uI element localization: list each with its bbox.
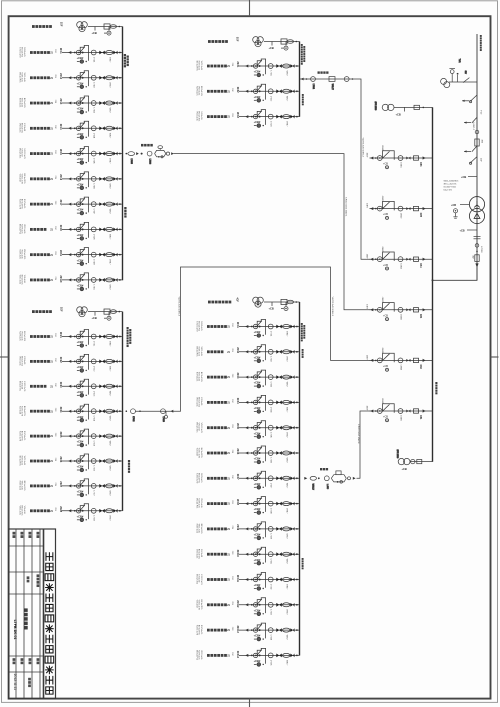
svg-text:WH17: WH17 xyxy=(108,234,110,239)
svg-text:L7313: L7313 xyxy=(162,417,164,422)
generator 4GF machine hall xyxy=(253,297,300,311)
svg-text:+CB: +CB xyxy=(269,46,274,50)
svg-text:WH17: WH17 xyxy=(285,407,287,412)
svg-text:N2XY-4x25: N2XY-4x25 xyxy=(195,372,197,381)
svg-text:L7305: L7305 xyxy=(130,159,132,164)
svg-text:WH17: WH17 xyxy=(108,158,110,163)
svg-text:L6903: L6903 xyxy=(400,264,402,269)
svg-text:BV-3x4 P25: BV-3x4 P25 xyxy=(23,406,25,416)
svg-text:N2XY-4x25: N2XY-4x25 xyxy=(198,650,200,659)
svg-text:21M: 21M xyxy=(54,483,56,487)
svg-text:21M: 21M xyxy=(54,125,56,129)
svg-text:L7307: L7307 xyxy=(93,209,95,214)
svg-text:ZF42: ZF42 xyxy=(236,347,239,353)
svg-text:L7321: L7321 xyxy=(270,71,272,76)
svg-text:BV-5x6 S25: BV-5x6 S25 xyxy=(195,423,197,433)
svg-text:21M: 21M xyxy=(54,458,56,462)
svg-text:BV-5x6 S25: BV-5x6 S25 xyxy=(21,506,23,516)
svg-text:21M: 21M xyxy=(54,507,56,511)
svg-text:YJV22-3x70: YJV22-3x70 xyxy=(195,473,197,483)
svg-text:L7314: L7314 xyxy=(93,416,95,421)
svg-text:21M: 21M xyxy=(54,358,56,362)
svg-text:21M: 21M xyxy=(54,201,56,205)
svg-text:BV-3x4 P25: BV-3x4 P25 xyxy=(198,625,200,635)
svg-text:BV-3x4 P25: BV-3x4 P25 xyxy=(195,650,197,660)
frame centering tick top xyxy=(249,0,251,16)
svg-text:ZF47: ZF47 xyxy=(236,474,239,480)
svg-text:ZF45: ZF45 xyxy=(236,423,239,429)
svg-text:L7308: L7308 xyxy=(93,234,95,239)
feeder bay ZF414 xyxy=(195,648,299,666)
svg-text:ZF21: ZF21 xyxy=(59,332,62,338)
svg-text:WH17: WH17 xyxy=(108,108,110,113)
svg-text:21M: 21M xyxy=(231,450,233,454)
feeder bay ZF32 xyxy=(195,84,299,102)
svg-text:ZF23: ZF23 xyxy=(59,382,62,388)
svg-text:ZF25: ZF25 xyxy=(59,432,62,438)
svg-text:21M: 21M xyxy=(54,150,56,154)
svg-text:10kV: 10kV xyxy=(366,254,368,259)
svg-text:21M: 21M xyxy=(54,49,56,53)
svg-text:WH17: WH17 xyxy=(108,209,110,214)
svg-text:21M: 21M xyxy=(231,475,233,479)
svg-text:VV22-4x35: VV22-4x35 xyxy=(21,98,23,107)
svg-text:+CB: +CB xyxy=(461,175,466,179)
400V bus IV (middle) xyxy=(299,302,301,656)
svg-text:ZF44: ZF44 xyxy=(236,398,239,404)
main transformer T1 xyxy=(469,197,484,224)
svg-text:N2XY-4x25: N2XY-4x25 xyxy=(198,498,200,507)
svg-text:21M: 21M xyxy=(54,333,56,337)
break mark xyxy=(474,237,481,239)
svg-text:10kV: 10kV xyxy=(366,153,368,158)
10kV feeder bay D84 xyxy=(366,246,433,270)
svg-text:BV-5x6 S25: BV-5x6 S25 xyxy=(23,481,25,491)
bus I label 2 xyxy=(124,207,126,218)
svg-text:YJV-4x50: YJV-4x50 xyxy=(18,406,20,414)
feeder bay ZF45 xyxy=(195,421,299,439)
svg-text:W8L17: W8L17 xyxy=(331,84,333,90)
feeder bay ZF31 xyxy=(195,59,299,77)
svg-text:ZF16: ZF16 xyxy=(59,174,62,180)
svg-text:10kV: 10kV xyxy=(366,203,368,208)
svg-text:BV-3x4 P25: BV-3x4 P25 xyxy=(18,224,20,234)
feeder bay ZF43 xyxy=(195,370,299,388)
junction on 10kV bus xyxy=(432,279,434,281)
load switch QL1 xyxy=(470,157,478,165)
surge arrester branch xyxy=(461,175,477,179)
disconnect switch QS2 xyxy=(464,146,477,153)
svg-text:VV22-4x35: VV22-4x35 xyxy=(18,123,20,132)
bus IV labels xyxy=(301,323,305,341)
svg-text:WH17: WH17 xyxy=(108,341,110,346)
frame centering tick bottom xyxy=(249,699,251,707)
svg-text:L7304: L7304 xyxy=(93,133,95,138)
feeder bay ZF11 xyxy=(18,46,122,64)
feeder bay ZF110 xyxy=(18,273,122,291)
svg-text:L7311: L7311 xyxy=(93,341,95,346)
svg-text:N2XY-4x25: N2XY-4x25 xyxy=(200,625,202,634)
svg-text:YJV22-3x50 10kV-2: YJV22-3x50 10kV-2 xyxy=(361,138,363,158)
svg-text:VV22-4x35: VV22-4x35 xyxy=(21,249,23,258)
svg-text:BV-5x6 S25: BV-5x6 S25 xyxy=(23,249,25,259)
svg-text:ZF41: ZF41 xyxy=(236,322,239,328)
svg-text:WH17: WH17 xyxy=(285,432,287,437)
feeder bay ZF22 xyxy=(18,354,122,372)
svg-text:ZF49: ZF49 xyxy=(236,524,239,530)
svg-text:WH17: WH17 xyxy=(108,391,110,396)
svg-text:21M: 21M xyxy=(231,551,233,555)
feeder bay ZF18 xyxy=(18,222,122,240)
svg-text:YJV-4x50: YJV-4x50 xyxy=(23,275,25,283)
10kV bus (middle right) xyxy=(432,107,434,461)
tie feeder station transformer LV xyxy=(126,409,174,422)
bus II label 2 xyxy=(128,460,130,473)
svg-text:+CB: +CB xyxy=(92,31,97,35)
svg-text:+CB: +CB xyxy=(396,113,401,117)
svg-text:WH17: WH17 xyxy=(108,366,110,371)
10kV feeder bay D86 xyxy=(366,145,433,169)
svg-text:VV22-4x35: VV22-4x35 xyxy=(18,506,20,515)
svg-text:YJV22-3x70: YJV22-3x70 xyxy=(200,574,202,584)
svg-text:YJV22-3x50 10kV-4: YJV22-3x50 10kV-4 xyxy=(357,424,359,444)
svg-text:WH17: WH17 xyxy=(285,121,287,126)
svg-text:YJV-4x50: YJV-4x50 xyxy=(198,423,200,431)
svg-text:LTFB-D0-01: LTFB-D0-01 xyxy=(13,620,17,640)
svg-text:YJV22-3x50 10kV-3: YJV22-3x50 10kV-3 xyxy=(177,297,179,317)
svg-text:21M: 21M xyxy=(231,88,233,92)
svg-text:J0690: J0690 xyxy=(381,347,383,354)
svg-text:BV-3x4 P25: BV-3x4 P25 xyxy=(198,321,200,331)
svg-text:YJV22-3x50 10kV-1: YJV22-3x50 10kV-1 xyxy=(345,197,347,217)
svg-text:D85: D85 xyxy=(419,213,421,218)
feeder bay ZF27 xyxy=(18,479,122,497)
svg-text:ZF46: ZF46 xyxy=(236,448,239,454)
svg-text:WH17: WH17 xyxy=(285,559,287,564)
svg-text:L7312: L7312 xyxy=(132,416,134,421)
svg-text:VV22-4x35: VV22-4x35 xyxy=(21,481,23,490)
svg-text:BV-3x4 P25: BV-3x4 P25 xyxy=(21,431,23,441)
svg-text:+CB: +CB xyxy=(92,316,97,320)
svg-text:N2XY-4x25: N2XY-4x25 xyxy=(200,473,202,482)
svg-text:WH17: WH17 xyxy=(108,491,110,496)
svg-text:L7313: L7313 xyxy=(93,391,95,396)
svg-text:21M: 21M xyxy=(231,323,233,327)
svg-text:L7322: L7322 xyxy=(270,96,272,101)
svg-text:YJV-4x50: YJV-4x50 xyxy=(21,381,23,389)
svg-text:L7318: L7318 xyxy=(93,515,95,520)
bus III label xyxy=(301,44,305,65)
svg-text:ZF12: ZF12 xyxy=(59,73,62,79)
svg-text:WH17: WH17 xyxy=(108,57,110,62)
svg-text:YJV-4x50: YJV-4x50 xyxy=(200,549,202,557)
svg-text:L7302: L7302 xyxy=(93,82,95,87)
feeder bay ZF25 xyxy=(18,429,122,447)
svg-text:L7335: L7335 xyxy=(270,660,272,665)
svg-text:YJV-4x50: YJV-4x50 xyxy=(21,148,23,156)
svg-text:N2XY-4x25: N2XY-4x25 xyxy=(198,347,200,356)
svg-text:ZF17: ZF17 xyxy=(59,200,62,206)
svg-text:WH17: WH17 xyxy=(108,133,110,138)
svg-text:BV-3x4 P25: BV-3x4 P25 xyxy=(23,174,25,184)
svg-text:WH17: WH17 xyxy=(108,259,110,264)
svg-text:WH17: WH17 xyxy=(285,584,287,589)
svg-text:ZF410: ZF410 xyxy=(236,550,239,558)
svg-text:L.05C: L.05C xyxy=(326,484,328,490)
svg-text:+CB: +CB xyxy=(460,229,465,232)
svg-text:WH17: WH17 xyxy=(285,382,287,387)
feeder bay ZF46 xyxy=(195,446,299,464)
svg-text:21M: 21M xyxy=(54,277,56,281)
10kV incoming overhead line xyxy=(476,34,478,280)
svg-text:N2XY-4x25: N2XY-4x25 xyxy=(198,61,200,70)
svg-text:WH17: WH17 xyxy=(285,660,287,665)
svg-text:N2XY-4x25: N2XY-4x25 xyxy=(200,321,202,330)
svg-text:YJV-4x50: YJV-4x50 xyxy=(195,448,197,456)
svg-text:N2XY-4x25: N2XY-4x25 xyxy=(23,47,25,56)
frame centering tick left xyxy=(0,356,9,358)
svg-text:ZF413: ZF413 xyxy=(236,626,239,634)
svg-text:BV-5x6 S25: BV-5x6 S25 xyxy=(200,86,202,96)
svg-text:4GF: 4GF xyxy=(236,297,239,302)
svg-text:ZF28: ZF28 xyxy=(59,506,62,512)
feeder bay ZF49 xyxy=(195,522,299,540)
svg-text:L7312: L7312 xyxy=(93,366,95,371)
400V bus II (left) xyxy=(122,312,124,511)
svg-text:21M: 21M xyxy=(231,627,233,631)
svg-text:VV22-4x35: VV22-4x35 xyxy=(200,61,202,70)
svg-text:WH17: WH17 xyxy=(285,534,287,539)
svg-text:N2XY-4x25: N2XY-4x25 xyxy=(21,456,23,465)
svg-text:L7339: L7339 xyxy=(270,534,272,539)
svg-text:ZF43: ZF43 xyxy=(236,373,239,379)
svg-text:L6901: L6901 xyxy=(400,162,402,167)
svg-text:L6902: L6902 xyxy=(400,213,402,218)
svg-text:BV-3x4 P25: BV-3x4 P25 xyxy=(200,600,202,610)
svg-text:YJV-4x50: YJV-4x50 xyxy=(23,123,25,131)
10kV feeder bay D82 xyxy=(366,347,433,371)
tie feeder pump-house supply xyxy=(301,77,354,90)
feeder bay ZF42 xyxy=(195,345,299,363)
generator G1 (10kV unit 1) xyxy=(374,102,433,117)
svg-text:ZF110: ZF110 xyxy=(59,275,62,283)
400V bus I (left) xyxy=(122,27,124,281)
svg-text:L7331: L7331 xyxy=(270,331,272,336)
title block xyxy=(9,529,56,699)
feed arrow xyxy=(475,263,478,267)
svg-text:YJV22-3x70: YJV22-3x70 xyxy=(18,431,20,441)
svg-text:N2XY-4x25: N2XY-4x25 xyxy=(23,431,25,440)
svg-text:N2XY-4x25: N2XY-4x25 xyxy=(195,524,197,533)
svg-text:WH17: WH17 xyxy=(285,458,287,463)
svg-text:D81: D81 xyxy=(419,415,421,420)
svg-text:WH17: WH17 xyxy=(108,82,110,87)
svg-text:3GF: 3GF xyxy=(236,37,238,42)
svg-text:ZF32: ZF32 xyxy=(236,87,239,93)
svg-text:YJV22-3x70: YJV22-3x70 xyxy=(198,448,200,458)
svg-text:+CB: +CB xyxy=(402,467,407,471)
svg-text:J0690: J0690 xyxy=(381,297,383,304)
svg-text:ZF22: ZF22 xyxy=(59,357,62,363)
svg-text:VV22-4x35: VV22-4x35 xyxy=(23,73,25,82)
svg-text:BV-5x6 S25: BV-5x6 S25 xyxy=(21,275,23,285)
svg-text:VV22-4x35: VV22-4x35 xyxy=(195,111,197,120)
feeder bay ZF413 xyxy=(195,623,299,641)
svg-text:N2XY-4x25: N2XY-4x25 xyxy=(23,199,25,208)
svg-text:YJV-4x50: YJV-4x50 xyxy=(23,506,25,514)
drawing name xyxy=(24,608,28,629)
feeder bay ZF12 xyxy=(18,71,122,89)
svg-text:BV-5x6 S25: BV-5x6 S25 xyxy=(18,148,20,158)
svg-text:21M: 21M xyxy=(54,226,56,230)
svg-text:+CB: +CB xyxy=(269,307,274,311)
line fuse FU1 xyxy=(475,139,479,146)
svg-text:YJV-4x50: YJV-4x50 xyxy=(200,397,202,405)
disconnect switch QS1 xyxy=(464,117,477,124)
bus I label xyxy=(124,54,129,67)
company name (vector pseudo-hanzi) xyxy=(45,552,54,694)
svg-text:BV-3x4 P25: BV-3x4 P25 xyxy=(21,199,23,209)
svg-text:YJV22-3x70: YJV22-3x70 xyxy=(23,148,25,158)
svg-text:BV-5x6 S25: BV-5x6 S25 xyxy=(198,397,200,407)
generator 2GF diesel set xyxy=(77,307,123,321)
svg-text:YJV-4x50: YJV-4x50 xyxy=(23,356,25,364)
svg-text:YJV-4x50: YJV-4x50 xyxy=(18,174,20,182)
svg-text:21M: 21M xyxy=(54,100,56,104)
svg-text:BV-3x4 P25: BV-3x4 P25 xyxy=(21,47,23,57)
svg-text:W3U17: W3U17 xyxy=(311,484,313,490)
LV fuse xyxy=(475,255,479,262)
feeder bay ZF411 xyxy=(195,573,299,591)
svg-text:VV22-4x35: VV22-4x35 xyxy=(195,549,197,558)
svg-text:L7316: L7316 xyxy=(93,466,95,471)
svg-text:21M: 21M xyxy=(54,433,56,437)
feeder bay ZF17 xyxy=(18,197,122,215)
feeder bay ZF13 xyxy=(18,96,122,114)
transformer neutral arrester xyxy=(451,204,469,218)
svg-text:L6906: L6906 xyxy=(400,415,402,420)
title block header labels xyxy=(12,532,15,538)
svg-text:L7315: L7315 xyxy=(93,441,95,446)
tie feeder lighting transformer xyxy=(304,471,355,490)
svg-text:BV-5x6 S25: BV-5x6 S25 xyxy=(200,524,202,534)
svg-text:1GF: 1GF xyxy=(60,22,62,27)
LV side arrester xyxy=(460,229,478,232)
svg-text:N2XY-4x25: N2XY-4x25 xyxy=(18,249,20,258)
svg-text:L7306: L7306 xyxy=(93,183,95,188)
svg-text:L7301: L7301 xyxy=(93,57,95,62)
svg-text:10kV: 10kV xyxy=(366,406,368,411)
svg-text:VV22-4x35: VV22-4x35 xyxy=(18,275,20,284)
svg-text:L7331: L7331 xyxy=(270,559,272,564)
svg-text:L7334: L7334 xyxy=(270,407,272,412)
feeder bay ZF24 xyxy=(18,404,122,422)
svg-text:L7317: L7317 xyxy=(93,491,95,496)
svg-text:21M: 21M xyxy=(231,374,233,378)
svg-text:WH17: WH17 xyxy=(285,71,287,76)
svg-text:ZF15: ZF15 xyxy=(59,149,62,155)
svg-text:J0690: J0690 xyxy=(381,145,383,152)
svg-text:21M: 21M xyxy=(54,175,56,179)
svg-text:WH17: WH17 xyxy=(108,416,110,421)
svg-text:ZF19: ZF19 xyxy=(59,250,62,256)
svg-text:WH17: WH17 xyxy=(108,466,110,471)
svg-text:ZF11: ZF11 xyxy=(59,48,62,54)
svg-text:WH17: WH17 xyxy=(108,183,110,188)
svg-text:21M: 21M xyxy=(231,424,233,428)
feeder bay ZF41 xyxy=(195,320,299,338)
svg-text:ZF14: ZF14 xyxy=(59,124,62,130)
svg-text:WH17: WH17 xyxy=(285,356,287,361)
feeder bay ZF21 xyxy=(18,330,122,348)
svg-text:YJV22-3x70: YJV22-3x70 xyxy=(18,199,20,209)
wire transformer LV to 10kV bus xyxy=(433,268,478,281)
svg-text:ZF18: ZF18 xyxy=(59,225,62,231)
svg-text:WH17: WH17 xyxy=(285,483,287,488)
wire W1 to 10kV bay D83 xyxy=(174,154,370,310)
svg-text:L7309: L7309 xyxy=(93,259,95,264)
svg-text:10kV: 10kV xyxy=(366,355,368,360)
svg-text:L7303: L7303 xyxy=(93,108,95,113)
svg-text:10kV: 10kV xyxy=(366,304,368,309)
svg-text:BV-5x6 S25: BV-5x6 S25 xyxy=(21,356,23,366)
svg-text:L7008: L7008 xyxy=(480,246,482,253)
svg-text:YJV22-3x70: YJV22-3x70 xyxy=(18,47,20,57)
generator 1GF diesel set xyxy=(77,22,123,35)
svg-text:21M: 21M xyxy=(231,399,233,403)
feeder bay ZF28 xyxy=(18,504,122,522)
feeder bay ZF412 xyxy=(195,598,299,616)
svg-text:WH17: WH17 xyxy=(285,609,287,614)
svg-text:L630/1-2: L630/1-2 xyxy=(472,123,474,130)
svg-text:ZF13: ZF13 xyxy=(59,98,62,104)
bus II label xyxy=(127,327,132,347)
svg-text:YJV22-3x70: YJV22-3x70 xyxy=(198,600,200,610)
svg-text:2FJ 2500: 2FJ 2500 xyxy=(396,450,398,460)
svg-text:21M: 21M xyxy=(231,63,233,67)
svg-text:D83: D83 xyxy=(419,314,421,319)
svg-text:21M: 21M xyxy=(231,526,233,530)
svg-text:VV22-4x35: VV22-4x35 xyxy=(23,224,25,233)
svg-text:2GF: 2GF xyxy=(60,307,62,312)
svg-text:L7336: L7336 xyxy=(270,458,272,463)
feeder bay ZF48 xyxy=(195,497,299,515)
svg-text:BV-3x4 P25: BV-3x4 P25 xyxy=(18,73,20,83)
svg-text:N2XY-4x25: N2XY-4x25 xyxy=(18,331,20,340)
svg-text:L7301: L7301 xyxy=(93,285,95,290)
feeder bay ZF19 xyxy=(18,248,122,266)
svg-text:YJV22-3x50 10kV-3: YJV22-3x50 10kV-3 xyxy=(331,297,333,317)
feeder bay ZF23 xyxy=(18,379,122,397)
svg-text:D84: D84 xyxy=(419,263,422,268)
feeder bay ZF33 xyxy=(195,110,299,128)
svg-text:N2XY-4x25: N2XY-4x25 xyxy=(18,98,20,107)
svg-text:VV22-4x35: VV22-4x35 xyxy=(198,86,200,95)
svg-text:ZF33: ZF33 xyxy=(236,112,239,118)
svg-text:BV-5x6 S25: BV-5x6 S25 xyxy=(200,372,202,382)
svg-text:J0690: J0690 xyxy=(381,196,383,203)
svg-text:2012.11.11: 2012.11.11 xyxy=(13,674,17,691)
svg-text:21M: 21M xyxy=(231,652,233,656)
svg-text:L7341: L7341 xyxy=(312,84,314,89)
svg-text:ZF26: ZF26 xyxy=(59,456,62,462)
svg-text:WH17: WH17 xyxy=(108,515,110,520)
generator G2 (10kV unit 2) xyxy=(396,450,433,471)
svg-text:L6904: L6904 xyxy=(400,314,402,319)
drop-out fuse F10 xyxy=(462,95,477,103)
svg-text:BV-3x4 P25: BV-3x4 P25 xyxy=(18,456,20,466)
10kV feeder bay D81 xyxy=(366,398,433,422)
